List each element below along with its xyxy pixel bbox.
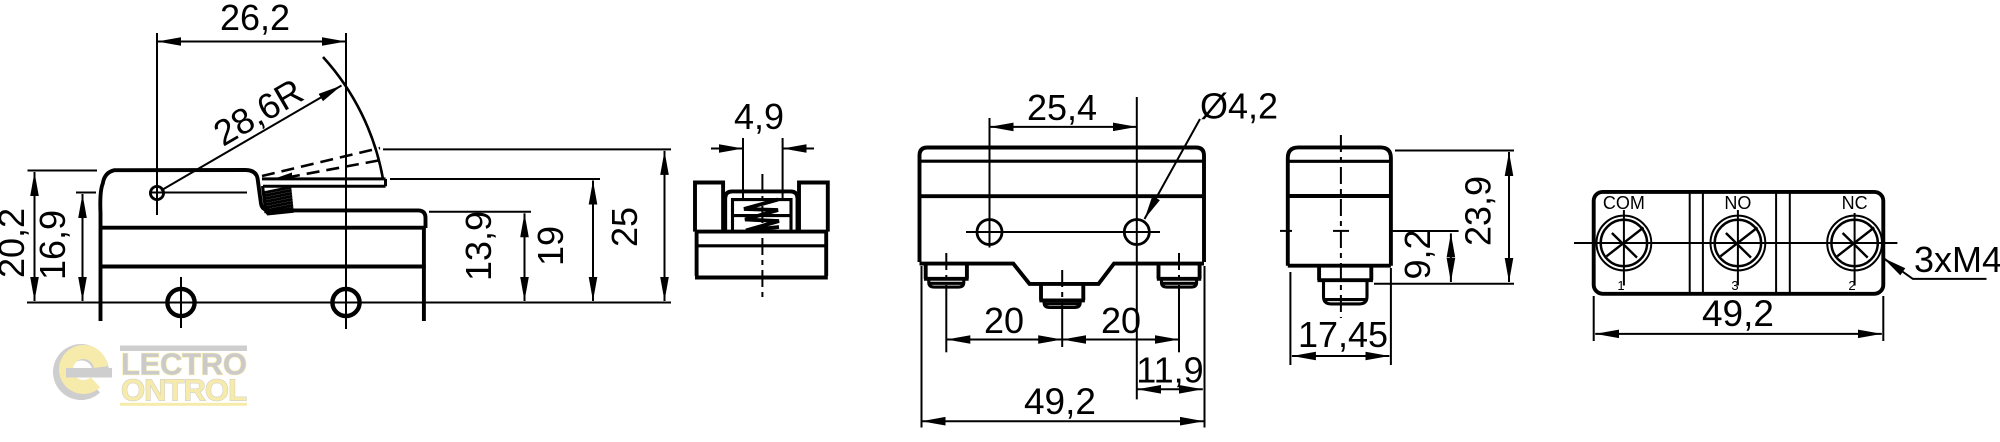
plunger block: [1318, 266, 1373, 281]
body mid band line: [99, 265, 426, 269]
left foot centerline dashed: [945, 253, 947, 295]
divider line 1b: [1702, 192, 1704, 294]
logo big e gray: [53, 344, 109, 400]
hole axis long line: [27, 302, 671, 304]
screw NC inner: [1831, 220, 1877, 266]
svg-text:49,2: 49,2: [1024, 381, 1096, 422]
body outline with bottom notch: [920, 148, 1205, 284]
right ear: [799, 183, 828, 232]
plunger centerline ext: [1061, 312, 1063, 347]
logo e bar: [66, 368, 112, 378]
svg-text:ONTROL: ONTROL: [121, 373, 247, 408]
screw COM inner: [1601, 220, 1647, 266]
plunger centerline dashed: [1061, 270, 1063, 312]
dim 4,9 ext right: [782, 138, 784, 199]
body sides and bottom: [695, 232, 828, 278]
dim 49,2 ext left: [1593, 296, 1595, 341]
svg-text:17,45: 17,45: [1298, 314, 1388, 355]
svg-text:11,9: 11,9: [1136, 350, 1203, 391]
plunger inner box: [733, 200, 792, 231]
svg-text:23,9: 23,9: [1458, 176, 1499, 246]
svg-text:16,9: 16,9: [32, 210, 73, 280]
cover seam 1: [1288, 160, 1391, 163]
terminal body: [1594, 192, 1884, 294]
dim 16,9 extension top: [76, 192, 96, 194]
divider line 2b: [1789, 192, 1791, 294]
holes axis line: [966, 231, 1160, 233]
screw NO vertical: [1737, 210, 1739, 286]
dim 17,45 ext left: [1289, 272, 1291, 365]
dim 49,2 line: [922, 420, 1205, 422]
leader 3xM4: [1883, 258, 1986, 279]
dim 25,4 line: [990, 126, 1137, 128]
screw NO outer: [1711, 216, 1766, 271]
svg-text:2: 2: [1848, 278, 1855, 293]
left foot cap: [929, 279, 964, 287]
body outline: [1288, 147, 1391, 265]
dim 19 line: [592, 181, 594, 302]
body step edge to lever slot: [246, 170, 426, 228]
dim 23,9 ext top: [1395, 150, 1514, 152]
right foot cap line: [1163, 282, 1196, 285]
center dashed line: [761, 174, 763, 298]
dim 4,9 line right part: [783, 148, 814, 150]
dim 25 line: [664, 151, 666, 301]
svg-text:25: 25: [604, 207, 645, 247]
mounting hole left: [167, 289, 194, 316]
mounting hole right: [332, 289, 359, 316]
dim 4,9 line left part: [711, 148, 743, 150]
dim 13,9 extension top: [429, 211, 531, 213]
left edge tick: [1280, 230, 1292, 232]
center plunger cap: [1044, 300, 1080, 307]
screw NC outer: [1827, 216, 1882, 271]
svg-text:COM: COM: [1603, 193, 1645, 213]
dim 49,2 line: [1595, 333, 1882, 335]
svg-text:3: 3: [1731, 278, 1738, 293]
plunger inner mid line: [733, 214, 792, 217]
body right edge: [422, 228, 426, 321]
svg-text:26,2: 26,2: [220, 0, 290, 38]
lever raised dashed lower: [287, 160, 381, 178]
body band mid line: [695, 244, 828, 247]
swing arc: [323, 57, 383, 179]
pivot hole: [150, 186, 163, 199]
radius line 28,6R: [161, 86, 342, 191]
screw NO cross: [1721, 228, 1758, 258]
svg-text:19: 19: [530, 226, 571, 266]
dim 13,9 line: [524, 213, 526, 301]
plunger cap line: [1325, 298, 1367, 301]
dim 17,45 ext right: [1390, 268, 1392, 365]
cover seam 2: [1288, 194, 1391, 198]
svg-text:4,9: 4,9: [734, 96, 784, 137]
screw NO inner: [1715, 220, 1761, 266]
body left edge ext: [921, 266, 923, 428]
dim 26,2 line: [157, 41, 346, 43]
pivot slot line: [150, 192, 247, 194]
center mark horizontal: [1333, 230, 1349, 232]
svg-text:9,2: 9,2: [1397, 229, 1438, 279]
left foot centerline ext: [945, 295, 947, 352]
right foot cap: [1162, 279, 1197, 287]
logo top bar: [120, 346, 247, 352]
svg-text:Ø4,2: Ø4,2: [1200, 86, 1278, 127]
screw COM vertical: [1623, 210, 1625, 286]
dim 9,2 line: [1450, 233, 1452, 282]
dim 9,2 ext top: [1393, 230, 1459, 232]
divider line 2a: [1775, 192, 1777, 294]
dim 20 left line: [946, 339, 1062, 341]
screw COM outer: [1597, 216, 1652, 271]
dim 9,2 ext bottom shared: [1374, 283, 1514, 285]
svg-text:20: 20: [1101, 300, 1141, 341]
center dashed line: [1340, 135, 1342, 318]
dim 20,2 extension top: [28, 170, 98, 172]
dim 26,2 extension right / hole centerline: [345, 33, 347, 329]
mounting hole left crosshair: [180, 277, 182, 328]
svg-text:20: 20: [984, 300, 1024, 341]
spring under lever: [264, 187, 294, 214]
logo underline: [120, 403, 247, 406]
svg-text:20,2: 20,2: [0, 208, 32, 278]
right foot centerline ext: [1178, 295, 1180, 352]
plunger cap: [1324, 280, 1368, 304]
dim 25 extension top: [383, 148, 671, 150]
lever raised dashed upper: [262, 148, 380, 176]
body band top line: [695, 230, 828, 234]
svg-text:13,9: 13,9: [458, 211, 499, 281]
svg-text:28,6R: 28,6R: [206, 70, 310, 154]
spring left edge: [263, 186, 267, 213]
left foot: [924, 264, 969, 279]
leader line dia 4,2: [1145, 119, 1201, 219]
body upper-left outline: [100, 170, 246, 321]
dim 26,2 extension left: [156, 33, 158, 215]
dim 17,45 line: [1292, 355, 1390, 357]
body top band line: [99, 226, 426, 230]
lever hinge wedge: [272, 173, 292, 180]
left foot cap line: [930, 282, 963, 285]
dim 11,9 line: [1137, 388, 1203, 390]
cover seam line 1: [920, 160, 1205, 163]
cover seam line 2: [920, 194, 1205, 198]
dim 16,9 line: [82, 194, 84, 301]
body bottom line: [1288, 264, 1391, 268]
center plunger cap line: [1045, 302, 1079, 305]
left ear: [695, 183, 723, 232]
svg-text:NO: NO: [1724, 193, 1751, 213]
terminals axis line: [1574, 242, 1897, 244]
svg-text:49,2: 49,2: [1702, 293, 1774, 334]
svg-text:1: 1: [1617, 278, 1624, 293]
hole left: [977, 220, 1002, 245]
screw NC cross: [1837, 228, 1874, 258]
svg-text:NC: NC: [1842, 193, 1868, 213]
svg-text:3xM4: 3xM4: [1914, 239, 2000, 280]
svg-text:25,4: 25,4: [1027, 87, 1097, 128]
right foot centerline dashed: [1178, 253, 1180, 295]
lever arm: [262, 179, 386, 186]
body right edge ext: [1204, 266, 1206, 428]
dim 23,9 line: [1508, 152, 1510, 282]
plunger housing: [725, 191, 797, 231]
dim 49,2 ext right: [1882, 296, 1884, 341]
hole right vertical long: [1136, 97, 1138, 399]
screw COM cross: [1607, 228, 1644, 258]
dim 20,2 line: [34, 172, 36, 301]
dim 19 extension top: [390, 178, 600, 180]
plunger spring zigzag: [744, 200, 779, 231]
hole right: [1124, 220, 1149, 245]
right foot: [1157, 264, 1201, 279]
dim 4,9 ext left: [742, 138, 744, 199]
center plunger: [1039, 284, 1085, 301]
dim 20 right line: [1062, 339, 1179, 341]
screw NC vertical: [1854, 213, 1856, 286]
hole left vertical: [989, 118, 991, 248]
divider line 1a: [1689, 192, 1691, 294]
logo big e yellow: [59, 345, 108, 394]
